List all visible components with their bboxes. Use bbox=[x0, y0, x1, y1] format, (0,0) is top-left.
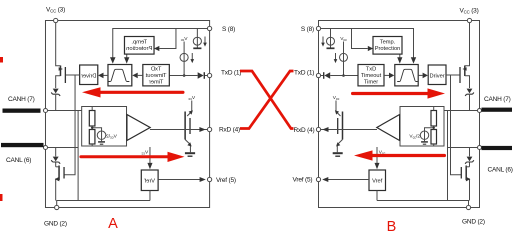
current source I2 (A, mirrored) bbox=[180, 53, 188, 61]
pin TxD(1) (B) bbox=[316, 73, 320, 77]
wire: S pin rail to slope-control input (A, mirrored) bbox=[113, 29, 210, 58]
wire: Vcc stub to output stage (B) bbox=[336, 101, 341, 117]
svg-text:Vcc: Vcc bbox=[188, 95, 195, 101]
Vcc/2 reference source (B) bbox=[409, 127, 435, 145]
RxD stage channel bar (A, mirrored) bbox=[184, 112, 186, 140]
pin Vcc(3) (A, mirrored) bbox=[54, 18, 58, 22]
wire: I1 to ground (A, mirrored) bbox=[196, 45, 198, 48]
receiver comparator (A, mirrored) bbox=[127, 115, 150, 141]
red edge fragment bottom-left bbox=[0, 194, 3, 201]
wire: Vref block to bottom rail (B) bbox=[376, 191, 378, 201]
wire: CANH internal line (B) bbox=[444, 110, 480, 112]
IC outer box (B) bbox=[319, 21, 480, 208]
svg-text:TxD (1): TxD (1) bbox=[294, 69, 314, 76]
red edge fragment top-left bbox=[0, 57, 3, 63]
wire: current source 1 stub (A, mirrored) bbox=[196, 29, 198, 38]
wire: driver output down to CANL transistor gate (A, mirrored) bbox=[64, 75, 75, 175]
wire: Vcc stub to output stage (A, mirrored) bbox=[187, 101, 192, 117]
wire: feed into Vref block (B) bbox=[376, 147, 378, 163]
junction dot TxD net (B) bbox=[342, 74, 345, 77]
upper transistor arrow (A, mirrored) bbox=[189, 110, 193, 114]
red cross wire: A RxD to B TxD bbox=[240, 71, 294, 129]
transceiver B internals bbox=[316, 18, 481, 209]
lower transistor arrow and ground (B) bbox=[333, 140, 343, 157]
CANL driver transistor (A, mirrored) bbox=[55, 166, 64, 201]
svg-text:Vcc: Vcc bbox=[333, 95, 340, 101]
wires: resistor chain (B) bbox=[433, 107, 435, 147]
CANL driver transistor (B) bbox=[461, 166, 470, 201]
wire: CANH internal line (A, mirrored) bbox=[45, 110, 81, 112]
Vcc/2 reference source (A, mirrored) bbox=[91, 127, 117, 145]
IC outer box (A, mirrored) bbox=[45, 21, 209, 208]
upper transistor arrow (B) bbox=[335, 110, 339, 114]
current source I1 (A, mirrored) bbox=[193, 37, 201, 45]
wire: rail branch into temp protection (A, mirrored) bbox=[159, 29, 176, 49]
svg-text:Driver: Driver bbox=[430, 73, 445, 79]
wire: bus vertical rail (A, mirrored) bbox=[77, 111, 79, 201]
wire: bottom internal rail (B) bbox=[377, 201, 469, 208]
resistor R1 (B) bbox=[431, 111, 437, 127]
resistor R2 (B) bbox=[431, 130, 437, 145]
diode D1 at TxD input (B) bbox=[323, 72, 325, 79]
junction dot TxD net (A, mirrored) bbox=[183, 74, 186, 77]
wire: CANL internal line (B) bbox=[448, 147, 480, 149]
svg-text:Temp.: Temp. bbox=[131, 39, 147, 45]
arrowhead into slope box from S rail (A, mirrored) bbox=[110, 57, 116, 63]
lower transistor arrow and ground (A, mirrored) bbox=[185, 140, 195, 157]
svg-text:GND (2): GND (2) bbox=[44, 221, 67, 228]
arrowhead into slope box from S rail (B) bbox=[411, 57, 416, 63]
arrow timer to slope shaper (A, mirrored) bbox=[138, 74, 143, 76]
svg-text:TxD: TxD bbox=[151, 67, 162, 73]
CANH driver transistor (B) bbox=[460, 23, 470, 88]
pin Vcc(3) (B) bbox=[467, 18, 471, 22]
svg-text:CANH (7): CANH (7) bbox=[484, 96, 511, 103]
current source I1 (B) bbox=[327, 37, 335, 45]
svg-text:Vcc: Vcc bbox=[340, 36, 347, 42]
ground bar under I1 (B) bbox=[327, 47, 335, 49]
svg-text:A: A bbox=[108, 216, 118, 232]
svg-text:Vref (5): Vref (5) bbox=[216, 177, 236, 184]
wire: diode to timeout timer (A, mirrored) bbox=[169, 75, 197, 77]
current direction arrow for I2 (B) bbox=[335, 53, 337, 60]
wire: diode to timeout timer (B) bbox=[330, 75, 358, 77]
pin S(8) (A, mirrored) bbox=[207, 26, 211, 30]
wire: S pin rail to slope-control input (B) bbox=[319, 29, 414, 58]
red arrow: transmit direction in B (points right) bbox=[351, 88, 445, 98]
red arrow: receive direction in A (points right) bbox=[79, 152, 184, 162]
ground bar under I1 (A, mirrored) bbox=[193, 47, 201, 49]
red arrow: transmit direction in A (points left) bbox=[82, 87, 185, 97]
temperature protection block (B) bbox=[373, 37, 402, 55]
driver block (A, mirrored) bbox=[80, 65, 98, 85]
svg-text:Timer: Timer bbox=[364, 79, 378, 85]
svg-text:CANL (6): CANL (6) bbox=[488, 167, 513, 174]
red arrow: receive direction in B (points left) bbox=[354, 150, 446, 160]
pin Vref(5) (B) bbox=[316, 177, 320, 181]
CANH bus stub of A bbox=[3, 109, 41, 113]
driver block (B) bbox=[428, 65, 446, 85]
diode CANL (A, mirrored) bbox=[51, 148, 60, 167]
diode CANH (B) bbox=[465, 89, 474, 111]
current direction arrow for I2 (A, mirrored) bbox=[191, 53, 193, 60]
svg-text:TxD: TxD bbox=[366, 67, 376, 73]
receiver comparator (B) bbox=[377, 115, 400, 141]
svg-text:Timer: Timer bbox=[149, 79, 164, 85]
wire: I2 to TxD net (B) bbox=[343, 61, 345, 75]
CANH bus stub of B bbox=[482, 108, 513, 112]
transceiver A internals (mirrored copy) bbox=[43, 18, 211, 209]
diode CANH (A, mirrored) bbox=[51, 89, 60, 111]
wire: TxD pin to diode (B) bbox=[319, 75, 324, 77]
RxD stage gate bar (B) bbox=[337, 118, 339, 134]
receiver input network box (B) bbox=[400, 107, 444, 147]
diode D1 at TxD input (A, mirrored) bbox=[203, 72, 205, 79]
slope shaper block (trapezoid waveform) (B) bbox=[395, 65, 418, 86]
TxD timeout timer block (B) bbox=[358, 65, 384, 86]
svg-text:Vcc/2: Vcc/2 bbox=[106, 133, 117, 139]
CANH driver transistor (A, mirrored) bbox=[56, 23, 66, 88]
wire: feed into Vref block (A, mirrored) bbox=[149, 147, 151, 163]
svg-text:Timeout: Timeout bbox=[145, 73, 166, 79]
wire: Vcc stub to I2 (B) bbox=[343, 42, 345, 54]
wire: rail branch into temp protection (B) bbox=[352, 29, 368, 49]
svg-text:Vcc: Vcc bbox=[141, 150, 148, 156]
svg-text:Timeout: Timeout bbox=[361, 73, 382, 79]
receiver input network box (A, mirrored) bbox=[82, 107, 127, 147]
wire: comparator output to RxD pin (A, mirrored) bbox=[150, 129, 208, 131]
wire: driver output (A, mirrored) bbox=[65, 74, 79, 76]
wire: Vref block to bottom rail (A, mirrored) bbox=[149, 191, 151, 201]
arrow timer to slope shaper (B) bbox=[384, 74, 389, 76]
svg-text:Vcc/2: Vcc/2 bbox=[409, 133, 420, 139]
svg-text:RxD (4): RxD (4) bbox=[219, 127, 240, 134]
pin S(8) (B) bbox=[316, 26, 320, 30]
resistor R1 (A, mirrored) bbox=[89, 111, 95, 127]
wires: resistor chain (A, mirrored) bbox=[91, 107, 93, 147]
svg-text:CANH (7): CANH (7) bbox=[8, 96, 35, 103]
wire: Vref block to Vref pin (A, mirrored) bbox=[158, 179, 201, 181]
arrow slope shaper to driver (A, mirrored) bbox=[103, 74, 107, 76]
svg-text:Vref (5): Vref (5) bbox=[293, 176, 313, 183]
svg-text:TxD (1): TxD (1) bbox=[221, 69, 241, 76]
wire: CANL internal line (A, mirrored) bbox=[45, 147, 78, 149]
wire: current source 1 stub (B) bbox=[330, 29, 332, 38]
svg-text:CANL (6): CANL (6) bbox=[6, 157, 31, 164]
RxD stage gate bar (A, mirrored) bbox=[189, 118, 191, 134]
pin CANH(7) (A, mirrored) bbox=[43, 109, 47, 113]
pin CANL(6) (A, mirrored) bbox=[43, 146, 47, 150]
CANL bus stub of B bbox=[482, 146, 513, 150]
arrow slope shaper to driver (B) bbox=[418, 74, 422, 76]
pin CANH(7) (B) bbox=[478, 109, 482, 113]
resistor R2 (A, mirrored) bbox=[89, 130, 95, 145]
svg-text:Protection: Protection bbox=[375, 46, 401, 52]
current source I2 (B) bbox=[340, 53, 348, 61]
TxD timeout timer block (A, mirrored) bbox=[143, 65, 169, 86]
pin GND(2) (A, mirrored) bbox=[55, 205, 59, 209]
svg-text:Driver: Driver bbox=[81, 73, 97, 79]
wire: comparator output to RxD pin (B) bbox=[321, 129, 378, 131]
arrowhead from temp protection into slope shaper (A, mirrored) bbox=[126, 54, 128, 58]
CANL bus stub of A bbox=[1, 143, 44, 147]
pin GND(2) (B) bbox=[466, 205, 470, 209]
svg-text:B: B bbox=[387, 219, 397, 235]
temperature protection block (A, mirrored) bbox=[124, 37, 154, 55]
Vref block (A, mirrored) bbox=[141, 170, 158, 191]
wire: driver output down to CANL transistor gate (B) bbox=[451, 75, 462, 175]
wire: bus vertical rail (B) bbox=[447, 111, 449, 201]
Vref block (B) bbox=[369, 170, 386, 191]
svg-text:Vref: Vref bbox=[144, 179, 155, 185]
current direction arrow for I1 (A, mirrored) bbox=[204, 37, 206, 44]
wire: I2 to TxD net (A, mirrored) bbox=[183, 61, 185, 75]
pin RxD(4) (A, mirrored) bbox=[207, 127, 211, 131]
svg-text:VCC (3): VCC (3) bbox=[46, 7, 65, 14]
current direction arrow for I1 (B) bbox=[322, 37, 324, 44]
wire: bottom internal rail (A, mirrored) bbox=[57, 201, 150, 208]
diode CANL (B) bbox=[465, 148, 474, 167]
svg-text:RxD (4): RxD (4) bbox=[294, 127, 315, 134]
pin RxD(4) (B) bbox=[316, 127, 320, 131]
wire: driver output (B) bbox=[446, 74, 460, 76]
svg-text:Vref: Vref bbox=[372, 179, 383, 185]
red cross wire: A TxD to B RxD bbox=[240, 71, 294, 129]
pin TxD(1) (A, mirrored) bbox=[207, 73, 211, 77]
svg-text:Protection: Protection bbox=[126, 46, 152, 52]
svg-text:S (8): S (8) bbox=[222, 26, 235, 33]
svg-text:VCC (3): VCC (3) bbox=[460, 8, 479, 15]
wire: Vcc stub to I2 (A, mirrored) bbox=[183, 42, 185, 54]
pin Vref(5) (A, mirrored) bbox=[207, 177, 211, 181]
svg-text:Temp.: Temp. bbox=[380, 39, 396, 45]
svg-text:Vcc: Vcc bbox=[180, 36, 187, 42]
wire: Vref block to Vref pin (B) bbox=[327, 179, 369, 181]
wire: TxD pin to diode (A, mirrored) bbox=[204, 75, 209, 77]
pin CANL(6) (B) bbox=[478, 146, 482, 150]
arrowhead from temp protection into slope shaper (B) bbox=[399, 54, 401, 58]
RxD stage channel bar (B) bbox=[342, 112, 344, 140]
slope shaper block (trapezoid waveform) (A, mirrored) bbox=[108, 65, 132, 86]
svg-text:S (8): S (8) bbox=[301, 26, 314, 33]
svg-text:GND (2): GND (2) bbox=[462, 219, 485, 226]
wire: I1 to ground (B) bbox=[330, 45, 332, 48]
